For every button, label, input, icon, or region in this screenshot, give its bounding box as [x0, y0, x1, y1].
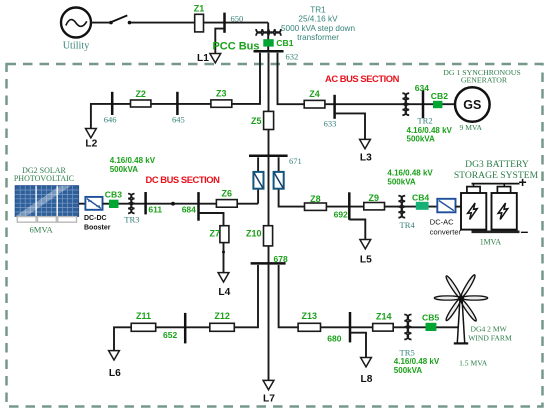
svg-text:680: 680	[327, 334, 341, 344]
svg-text:converter: converter	[430, 227, 462, 236]
svg-text:PHOTOVOLTAIC: PHOTOVOLTAIC	[14, 174, 74, 183]
bus 646	[111, 92, 114, 115]
svg-text:Utility: Utility	[63, 41, 91, 52]
bus 678	[251, 262, 286, 265]
load L6 arrow	[109, 351, 120, 360]
load L5 feeder wire	[349, 220, 365, 240]
load L2 arrow	[86, 129, 97, 138]
svg-text:transformer: transformer	[297, 33, 339, 42]
svg-text:4.16/0.48 kV: 4.16/0.48 kV	[387, 169, 433, 178]
bus 632 (PCC bus)	[254, 50, 284, 53]
svg-text:692: 692	[334, 210, 348, 220]
svg-text:Z6: Z6	[222, 189, 233, 199]
svg-text:AC BUS SECTION: AC BUS SECTION	[325, 73, 400, 84]
bus 671	[249, 155, 288, 158]
wire 671 to DC converter right	[279, 157, 305, 206]
svg-text:Z5: Z5	[251, 116, 262, 126]
bus 680	[349, 312, 352, 342]
wire converter to battery	[456, 206, 462, 208]
transformer TR3	[128, 194, 134, 214]
wire booster to CB3	[103, 203, 110, 205]
svg-text:L7: L7	[263, 393, 275, 404]
svg-text:4.16/0.48 kV: 4.16/0.48 kV	[110, 156, 156, 165]
svg-text:678: 678	[274, 254, 288, 264]
load L7 wire	[268, 263, 270, 380]
load L3 feeder wire	[335, 113, 365, 139]
svg-text:645: 645	[172, 115, 185, 125]
svg-text:6MVA: 6MVA	[30, 224, 54, 234]
bus 652	[184, 313, 187, 344]
DG4 wind turbine	[434, 274, 487, 344]
svg-text:Z12: Z12	[214, 311, 230, 321]
circuit breaker CB3	[109, 200, 119, 208]
wire 632 to right feeder	[278, 53, 455, 104]
load L5 arrow	[360, 240, 371, 249]
svg-text:WIND FARM: WIND FARM	[468, 334, 512, 343]
svg-text:Z10: Z10	[246, 229, 262, 239]
svg-text:CB3: CB3	[105, 190, 122, 200]
wire Z8 to 692 to Z9	[326, 206, 437, 208]
bus 645	[176, 92, 179, 115]
svg-text:DG4 2 MW: DG4 2 MW	[471, 324, 508, 333]
svg-text:CB4: CB4	[412, 193, 429, 203]
bus 684	[197, 192, 200, 221]
svg-text:684: 684	[182, 204, 196, 214]
circuit breaker CB4	[416, 202, 429, 210]
load L1 feeder wire	[215, 29, 224, 54]
svg-text:632: 632	[286, 52, 299, 62]
impedance Z9	[364, 193, 385, 210]
svg-text:Z2: Z2	[135, 89, 146, 99]
impedance Z3	[211, 88, 232, 107]
svg-text:500kVA: 500kVA	[110, 165, 139, 174]
impedance Z5	[251, 111, 274, 129]
svg-text:633: 633	[324, 118, 337, 128]
svg-text:L6: L6	[109, 368, 121, 379]
AC-DC converter (right)	[274, 172, 284, 189]
svg-text:Z4: Z4	[309, 89, 320, 99]
svg-text:1MVA: 1MVA	[480, 237, 502, 246]
svg-text:500kVA: 500kVA	[387, 178, 416, 187]
svg-text:L3: L3	[360, 153, 372, 164]
DC-AC converter	[437, 199, 455, 213]
impedance Z11	[131, 311, 156, 331]
wire 678 to bottom-right feeder	[279, 265, 299, 327]
load L1 arrow	[210, 54, 221, 63]
transformer TR5	[404, 315, 411, 340]
transformer TR2	[402, 93, 409, 115]
bus 633	[333, 95, 336, 119]
svg-text:DC-DC: DC-DC	[84, 215, 107, 222]
load L8 feeder wire	[350, 333, 366, 358]
wire 632 to left feeder	[91, 53, 260, 129]
svg-text:4.16/0.48 kV: 4.16/0.48 kV	[407, 126, 453, 135]
svg-text:Booster: Booster	[84, 225, 111, 232]
load L4 arrow	[218, 273, 229, 282]
svg-text:DG3 BATTERY: DG3 BATTERY	[465, 159, 529, 170]
svg-text:DC-AC: DC-AC	[430, 218, 454, 227]
svg-text:GENERATOR: GENERATOR	[461, 76, 508, 85]
utility AC source U-GRID	[61, 8, 91, 52]
svg-text:TR5: TR5	[400, 348, 415, 358]
wire switch to node 650	[131, 22, 268, 24]
transformer TR1 (25/4.16 kV)	[256, 29, 281, 36]
load L3 arrow	[360, 139, 371, 148]
svg-text:TR2: TR2	[417, 116, 432, 126]
svg-text:Z9: Z9	[369, 193, 380, 203]
svg-text:9 MVA: 9 MVA	[460, 123, 483, 132]
svg-text:650: 650	[231, 14, 244, 24]
svg-text:DC BUS SECTION: DC BUS SECTION	[146, 174, 221, 185]
svg-text:611: 611	[148, 205, 162, 215]
bottom-left feeder wire	[114, 327, 234, 350]
impedance Z14	[373, 312, 394, 332]
wire CB3 through TR3 to converters	[119, 203, 259, 205]
svg-text:TR3: TR3	[124, 215, 139, 225]
svg-text:646: 646	[104, 115, 117, 125]
impedance Z12	[210, 311, 235, 331]
svg-text:PCC Bus: PCC Bus	[212, 40, 259, 52]
wire 632 down through Z5 to bus 671	[268, 53, 270, 264]
circuit breaker CB5	[426, 323, 437, 331]
DG2 solar PV array	[15, 186, 78, 223]
svg-text:Z7: Z7	[210, 229, 221, 239]
wire Z13 to 680 to wind farm	[321, 326, 459, 328]
bus 634	[422, 90, 425, 118]
bus 692	[348, 192, 351, 220]
svg-text:L1: L1	[197, 53, 209, 64]
load L7 arrow	[263, 380, 274, 389]
svg-text:634: 634	[415, 83, 429, 93]
svg-text:L4: L4	[218, 287, 230, 298]
wire 671 to DC converter left	[257, 157, 259, 203]
disconnect switch SW1	[109, 15, 131, 24]
svg-text:1.5 MVA: 1.5 MVA	[459, 358, 488, 367]
svg-text:5000 kVA step down: 5000 kVA step down	[281, 24, 355, 33]
wire 678 to bottom-left feeder	[234, 265, 258, 327]
DG3 battery storage cells	[461, 184, 520, 232]
circuit breaker CB1	[263, 39, 273, 46]
impedance Z2	[131, 89, 151, 107]
bus 650	[223, 13, 226, 33]
wire utility to switch	[91, 22, 110, 24]
load L4 feeder wire	[199, 213, 224, 226]
svg-text:25/4.16 kV: 25/4.16 kV	[298, 15, 338, 24]
svg-text:–: –	[521, 223, 529, 239]
svg-text:L8: L8	[361, 374, 373, 385]
svg-text:L5: L5	[360, 254, 372, 265]
svg-text:L2: L2	[85, 138, 97, 149]
svg-text:CB1: CB1	[276, 38, 293, 48]
transformer TR4	[398, 196, 405, 218]
DG1 synchronous generator GS	[455, 87, 490, 122]
junction node dot	[171, 202, 175, 206]
wire Z7 to L4	[223, 243, 225, 273]
svg-text:TR1: TR1	[310, 6, 326, 15]
TR1 label text	[281, 6, 355, 43]
impedance Z7	[210, 226, 229, 243]
DC-DC booster converter	[85, 197, 102, 210]
svg-text:Z8: Z8	[310, 194, 321, 204]
load L8 arrow	[361, 358, 372, 367]
impedance Z10	[246, 226, 273, 246]
svg-text:652: 652	[163, 330, 177, 340]
impedance Z1	[194, 4, 205, 32]
circuit breaker CB2	[433, 101, 442, 108]
AC-DC converter (left)	[253, 172, 263, 189]
impedance Z13	[298, 311, 320, 331]
wire 650 down to transformer TR1	[267, 23, 269, 52]
svg-text:CB2: CB2	[431, 91, 448, 101]
svg-text:Z3: Z3	[216, 88, 227, 98]
bus 611	[144, 192, 147, 214]
svg-text:TR4: TR4	[400, 220, 416, 230]
impedance Z6	[216, 189, 237, 208]
svg-text:Z14: Z14	[376, 312, 392, 322]
impedance Z4	[304, 89, 325, 108]
svg-text:500kVA: 500kVA	[394, 366, 423, 375]
svg-text:CB5: CB5	[422, 313, 439, 323]
svg-text:Z1: Z1	[194, 4, 205, 14]
impedance Z8	[305, 194, 327, 211]
wire PV to DC-DC booster	[79, 203, 86, 205]
svg-text:GS: GS	[463, 98, 481, 112]
svg-text:500kVA: 500kVA	[407, 135, 436, 144]
svg-text:Z13: Z13	[302, 311, 318, 321]
svg-text:+: +	[519, 174, 527, 190]
svg-text:671: 671	[289, 156, 302, 166]
svg-text:Z11: Z11	[136, 311, 151, 321]
